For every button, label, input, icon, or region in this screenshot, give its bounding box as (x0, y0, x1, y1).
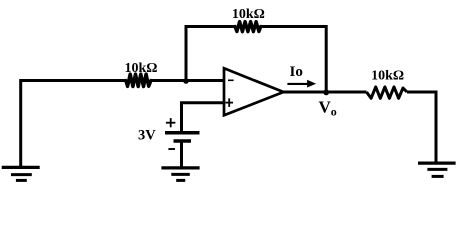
arrow for Io current direction (287, 83, 308, 85)
battery minus sign (168, 148, 175, 150)
svg-text:10kΩ: 10kΩ (232, 7, 265, 22)
wire: op-amp output to R3 (284, 91, 367, 94)
resistor R2 10k (feedback, top) (235, 22, 261, 32)
wire: R1 to op-amp inverting input (151, 79, 224, 82)
wire: battery to ground (180, 141, 183, 168)
node Vo junction dot (323, 90, 329, 96)
op-amp U1 (224, 68, 284, 115)
wire: R2 to feedback right vertical down to output node (261, 27, 326, 93)
node: junction at inverting input (183, 78, 189, 84)
svg-text:10kΩ: 10kΩ (371, 68, 404, 83)
wire: feedback left vertical + top run to R2 (186, 27, 235, 81)
ground (bottom left) (2, 167, 40, 180)
battery plus sign (166, 118, 176, 127)
svg-text:Io: Io (290, 64, 303, 80)
resistor R3 10k (load) (367, 87, 408, 98)
wire: non-inverting input to battery (182, 103, 225, 132)
op-amp plus sign (225, 98, 233, 107)
wire: left vertical and top horizontal to R1 (21, 81, 126, 168)
op-amp minus sign (228, 79, 234, 81)
svg-text:3V: 3V (138, 127, 156, 143)
wire: R3 to right vertical down (407, 92, 436, 163)
svg-text:10kΩ: 10kΩ (125, 61, 158, 76)
ground (battery) (161, 168, 199, 181)
resistor R1 10k (input) (126, 74, 151, 86)
battery V1 (3V source) plates (165, 131, 200, 135)
ground (bottom right) (418, 163, 456, 176)
